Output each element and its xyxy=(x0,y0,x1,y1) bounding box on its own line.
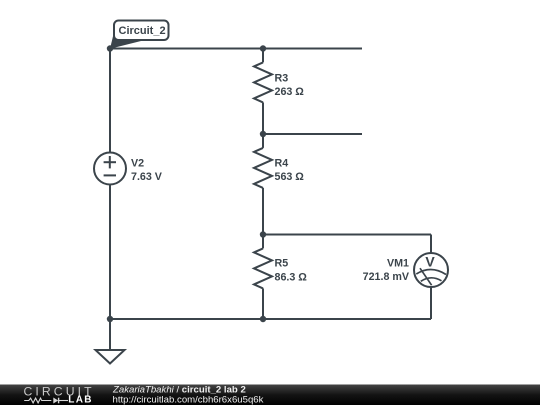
wire voltmeter top lead xyxy=(430,235,432,255)
label R4 value xyxy=(275,157,305,183)
svg-text:LAB: LAB xyxy=(68,394,92,405)
svg-text:263 Ω: 263 Ω xyxy=(275,86,305,98)
svg-text:VM1: VM1 xyxy=(387,258,409,270)
svg-text:V2: V2 xyxy=(131,158,144,170)
node junction dot R5 bottom xyxy=(260,316,266,322)
svg-text:86.3 Ω: 86.3 Ω xyxy=(275,271,308,283)
wire bottom net xyxy=(110,318,431,320)
resistor R5 xyxy=(254,235,272,320)
node junction dot bottom-left xyxy=(107,316,113,322)
wire ground stub xyxy=(109,319,111,350)
node A junction dot top-left xyxy=(107,45,113,51)
footer CircuitLab logo xyxy=(24,384,95,405)
footer bar xyxy=(0,385,540,405)
svg-text:R5: R5 xyxy=(275,257,289,269)
label V2 value xyxy=(131,158,163,183)
svg-text:7.63 V: 7.63 V xyxy=(131,171,163,183)
svg-text:R3: R3 xyxy=(275,73,289,85)
svg-text:V: V xyxy=(425,254,435,270)
voltmeter VM1 xyxy=(414,253,448,287)
wire voltmeter bottom lead xyxy=(430,286,432,319)
voltage source V2 xyxy=(94,153,126,185)
wire second net from R3/R4 junction to right stub xyxy=(263,133,362,135)
node junction dot R3 top xyxy=(260,45,266,51)
node junction dot R4/R5 xyxy=(260,231,266,237)
svg-text:563 Ω: 563 Ω xyxy=(275,171,305,183)
node label Circuit_2 flag xyxy=(110,21,169,49)
resistor R4 xyxy=(254,134,272,235)
svg-text:R4: R4 xyxy=(275,157,289,169)
label R3 value xyxy=(275,73,305,98)
svg-text:721.8 mV: 721.8 mV xyxy=(363,271,410,283)
wire V2 top lead xyxy=(109,49,111,154)
wire third net from R4/R5 junction to voltmeter xyxy=(263,234,431,236)
resistor R3 xyxy=(254,49,272,135)
ground xyxy=(96,350,125,364)
label VM1 value xyxy=(363,258,410,283)
svg-text:Circuit_2: Circuit_2 xyxy=(119,25,166,37)
label R5 value xyxy=(275,257,308,283)
svg-text:http://circuitlab.com/cbh6r6x6: http://circuitlab.com/cbh6r6x6u5q6k xyxy=(113,395,264,405)
node junction dot R3/R4 xyxy=(260,131,266,137)
wire top net from node A to right stub xyxy=(110,48,362,50)
wire V2 bottom lead xyxy=(109,184,111,320)
